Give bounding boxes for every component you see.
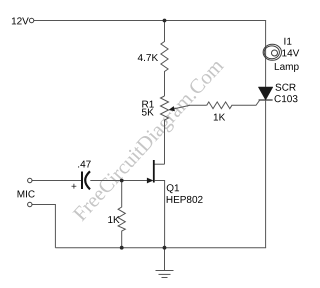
svg-text:FreeCircuitDiagram.Com: FreeCircuitDiagram.Com — [69, 55, 228, 225]
svg-text:.47: .47 — [77, 159, 91, 170]
svg-text:HEP802: HEP802 — [166, 195, 204, 206]
svg-text:14V: 14V — [282, 48, 300, 59]
svg-text:1K: 1K — [107, 215, 120, 226]
svg-text:Lamp: Lamp — [274, 62, 299, 73]
svg-text:MIC: MIC — [17, 189, 35, 200]
svg-text:SCR: SCR — [275, 83, 296, 94]
svg-text:Q1: Q1 — [166, 183, 180, 194]
svg-text:C103: C103 — [274, 94, 298, 105]
svg-text:4.7K: 4.7K — [138, 53, 159, 64]
svg-text:1K: 1K — [213, 113, 226, 124]
svg-text:5K: 5K — [142, 107, 155, 118]
svg-text:+: + — [71, 181, 77, 192]
svg-text:I1: I1 — [284, 37, 293, 48]
svg-text:12V: 12V — [11, 16, 29, 27]
